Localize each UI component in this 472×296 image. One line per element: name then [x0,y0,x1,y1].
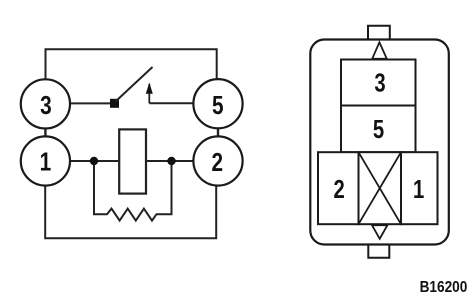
wire top rail (terminal 3 to terminal 5 via top) [46,49,217,79]
svg-text:3: 3 [40,91,52,120]
svg-text:5: 5 [373,115,384,144]
connector bottom index triangle [372,225,387,239]
resistor R (parallel with coil) [94,161,172,221]
pin cavity 3 box [341,60,416,106]
pin cavity 2 label [334,175,345,204]
pin cavity 5 box [341,106,416,153]
relay coil L1 [119,129,146,193]
svg-text:1: 1 [413,174,424,203]
svg-text:2: 2 [212,148,224,177]
pin cavity 1 box [401,152,438,224]
terminal 1 circle [21,136,70,185]
terminal 1 label [40,148,52,177]
keyway box with cross [359,152,402,224]
wire link terminals 3-1 [44,128,46,137]
pin cavity 1 label [413,174,424,203]
svg-text:1: 1 [40,148,52,177]
wire link terminals 5-2 [217,128,219,137]
terminal 3 circle [21,79,70,128]
switch SW contact arrow [146,83,153,104]
terminal 3 label [40,91,52,120]
terminal 2 circle [193,136,242,185]
terminal 5 label [212,91,224,120]
connector top index triangle [372,42,387,59]
junction dot right (node on pin2 wire) [167,157,175,165]
terminal 5 circle [193,79,242,128]
wire bottom rail (terminal 1 to terminal 2 via bottom) [45,186,216,238]
svg-text:2: 2 [334,175,345,204]
connector bottom mounting tab [368,245,389,258]
connector housing outline [310,40,449,245]
junction dot left (node on pin1 wire) [90,157,98,165]
svg-text:B16200: B16200 [420,279,468,296]
pin cavity 3 label [374,68,385,97]
wire switch feed from terminal 3 [70,102,112,104]
terminal 2 label [212,148,224,177]
pin cavity 5 label [373,115,384,144]
switch SW pivot dot [110,99,119,108]
pin cavity 2 box [318,152,359,224]
wire coil row (terminal 1 to terminal 2) [70,160,194,162]
figure number label B16200 [420,279,468,296]
wire switch output to terminal 5 [149,102,193,104]
svg-text:5: 5 [212,91,224,120]
svg-text:3: 3 [374,68,385,97]
connector top mounting tab [368,26,390,40]
switch SW blade [116,67,153,102]
